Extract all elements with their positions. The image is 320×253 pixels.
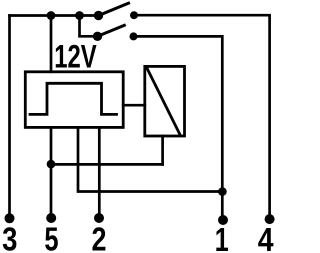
svg-text:3: 3 (2, 221, 17, 253)
svg-text:1: 1 (215, 222, 229, 253)
node junction on top bus (branch) (75, 11, 84, 20)
svg-text:2: 2 (92, 221, 107, 253)
pulse waveform symbol (30, 83, 117, 114)
wire pin5 lead (50, 127, 53, 214)
wire branch to lower switch (80, 16, 98, 37)
node coil return junction (47, 160, 56, 169)
node flasher output junction (218, 187, 227, 196)
terminal pin 2 (94, 213, 104, 223)
svg-text:5: 5 (44, 221, 58, 253)
terminal pin 3 (5, 213, 15, 223)
relay coil diagonal (147, 68, 180, 134)
wire 12V feed down into flasher box (50, 16, 53, 72)
wire from S1 contact to pin4 (134, 15, 270, 215)
svg-text:4: 4 (258, 222, 274, 253)
switch S2 pivot dot (93, 32, 102, 41)
svg-text:12V: 12V (54, 39, 97, 75)
node junction on top bus (12V feed) (47, 11, 56, 20)
switch S2 contact dot (130, 32, 138, 40)
switch S1 pivot dot (94, 11, 103, 20)
wire pin3 lead (left vertical) (8, 16, 11, 215)
terminal pin 5 (46, 213, 56, 223)
switch S1 lever (99, 3, 129, 15)
wire U1 to relay coil (123, 104, 145, 107)
wire relay coil bottom stub (161, 136, 164, 164)
relay coil box K1 (145, 66, 185, 136)
flasher unit box U1 (25, 72, 123, 128)
terminal pin 1 (218, 215, 228, 225)
terminal pin 4 (265, 214, 275, 224)
wire top supply bus (10, 14, 99, 17)
wire pin2 lead (98, 127, 101, 214)
wire flasher output to pin1 line (78, 127, 222, 191)
switch S2 lever (98, 25, 125, 36)
wire from S2 contact to pin1 (134, 36, 223, 216)
wire coil return to pin5 line (51, 163, 163, 166)
switch S1 contact dot (130, 11, 138, 19)
